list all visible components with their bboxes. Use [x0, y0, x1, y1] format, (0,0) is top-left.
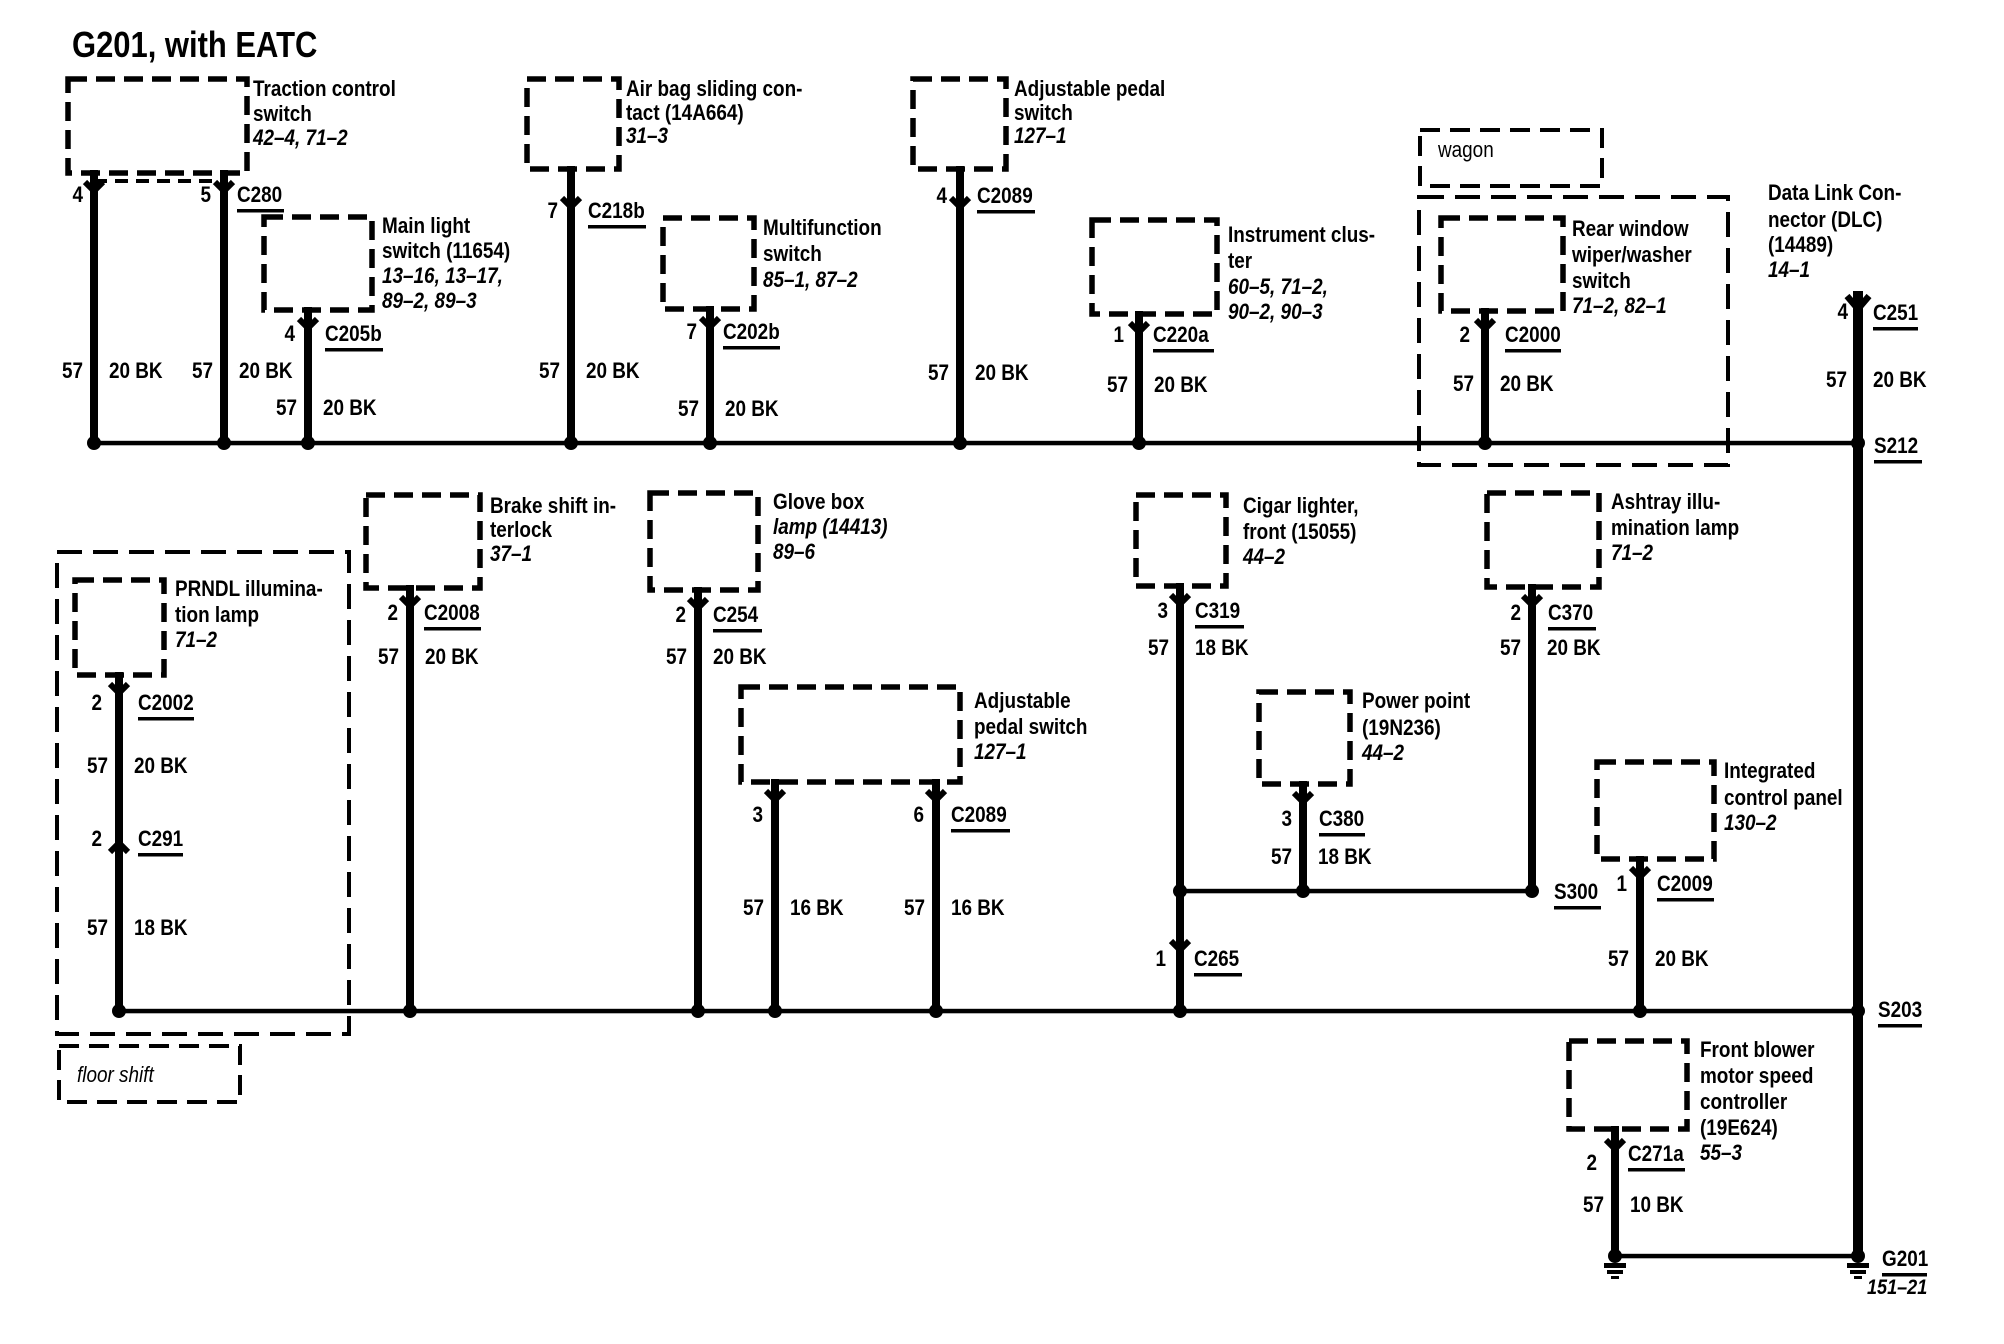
svg-text:14–1: 14–1: [1768, 258, 1810, 283]
pin 1 / connector C265: [1155, 947, 1242, 977]
wire: Adjustable pedal switch pin 3 to S203: [766, 779, 784, 1011]
svg-text:(19N236): (19N236): [1362, 716, 1441, 741]
svg-text:89–6: 89–6: [773, 540, 816, 565]
wire label 57 / 18 BK (power point wire): [1271, 845, 1372, 870]
svg-text:20 BK: 20 BK: [109, 359, 163, 384]
svg-text:C370: C370: [1548, 601, 1593, 626]
svg-text:Integrated: Integrated: [1724, 759, 1815, 784]
svg-text:71–2, 82–1: 71–2, 82–1: [1572, 294, 1667, 319]
svg-text:C202b: C202b: [723, 320, 780, 345]
svg-text:Adjustable: Adjustable: [974, 689, 1071, 714]
wire label 57 / 20 BK (glove box wire): [666, 645, 767, 670]
wire label 57 / 20 BK (PRNDL upper): [87, 754, 188, 779]
svg-text:ter: ter: [1228, 249, 1252, 274]
wire label 57 / 20 BK (air bag wire): [539, 359, 640, 384]
svg-text:switch (11654): switch (11654): [382, 239, 510, 264]
wire: Traction control switch pin 4 to S212: [85, 170, 103, 443]
svg-text:PRNDL illumina-: PRNDL illumina-: [175, 577, 323, 602]
svg-text:3: 3: [1157, 599, 1168, 624]
component: Ashtray illumination lamp (box): [1487, 493, 1599, 587]
wire label 57 / 20 BK (traction pin 4 wire): [62, 359, 163, 384]
svg-text:4: 4: [72, 183, 83, 208]
wire: Glove box lamp pin 2 (C254) to S203: [689, 587, 707, 1011]
svg-text:57: 57: [62, 359, 83, 384]
pin 7 / connector C202b: [686, 320, 780, 350]
svg-text:C265: C265: [1194, 947, 1239, 972]
svg-text:3: 3: [1281, 807, 1292, 832]
enclosure: floor shift option around PRNDL illumination lamp: [57, 552, 349, 1034]
svg-text:44–2: 44–2: [1361, 741, 1405, 766]
svg-text:Air bag sliding con-: Air bag sliding con-: [626, 77, 802, 102]
svg-text:13–16, 13–17,: 13–16, 13–17,: [382, 264, 503, 289]
svg-text:2: 2: [675, 603, 686, 628]
pin 3 / connector C380: [1281, 807, 1365, 837]
label: Adjustable pedal switch 127-1: [1014, 77, 1165, 149]
svg-text:C2089: C2089: [977, 184, 1033, 209]
svg-text:57: 57: [666, 645, 687, 670]
svg-text:controller: controller: [1700, 1090, 1787, 1115]
svg-text:Front blower: Front blower: [1700, 1038, 1814, 1063]
svg-text:switch: switch: [1014, 101, 1073, 126]
component: Rear window wiper/washer switch (box): [1441, 218, 1563, 311]
svg-text:2: 2: [91, 827, 102, 852]
label: Integrated control panel 130-2: [1724, 759, 1843, 836]
pin 1 / connector C2009: [1616, 872, 1714, 902]
svg-text:57: 57: [539, 359, 560, 384]
svg-text:20 BK: 20 BK: [713, 645, 767, 670]
svg-text:37–1: 37–1: [490, 542, 532, 567]
bus: splice S203 horizontal wire: [119, 1009, 1858, 1014]
svg-text:20 BK: 20 BK: [586, 359, 640, 384]
component: Instrument cluster (box): [1092, 220, 1217, 314]
svg-text:10 BK: 10 BK: [1630, 1193, 1684, 1218]
svg-text:18 BK: 18 BK: [134, 916, 188, 941]
svg-text:20 BK: 20 BK: [425, 645, 479, 670]
wire: Power point pin 3 (C380) to S300: [1294, 781, 1312, 891]
bus: splice S212 horizontal wire: [94, 441, 1858, 446]
wire label 57 / 16 BK (adj pedal pin3 wire): [743, 896, 844, 921]
component: Cigar lighter, front (15055) (box): [1136, 495, 1226, 586]
svg-text:S212: S212: [1874, 434, 1918, 459]
svg-text:Traction control: Traction control: [253, 77, 396, 102]
component: Power point (19N236) (box): [1259, 692, 1350, 784]
svg-text:tact (14A664): tact (14A664): [626, 101, 744, 126]
svg-text:Main light: Main light: [382, 214, 470, 239]
svg-text:Adjustable pedal: Adjustable pedal: [1014, 77, 1165, 102]
svg-text:wiper/washer: wiper/washer: [1571, 243, 1692, 268]
svg-text:control panel: control panel: [1724, 786, 1843, 811]
wire label 57 / 20 BK (multifunction wire): [678, 397, 779, 422]
svg-text:C291: C291: [138, 827, 183, 852]
connector C265 down-arrow on cigar lighter wire: [1171, 941, 1189, 950]
svg-text:57: 57: [1271, 845, 1292, 870]
svg-text:20 BK: 20 BK: [725, 397, 779, 422]
svg-text:57: 57: [1608, 947, 1629, 972]
svg-text:Glove box: Glove box: [773, 490, 865, 515]
label: PRNDL illumination lamp 71-2: [175, 577, 323, 653]
pin 3 of Adjustable pedal switch (lower): [752, 803, 763, 828]
label: Main light switch (11654): [382, 214, 510, 314]
pin 2 / connector C2000: [1459, 323, 1561, 353]
wire: Adjustable pedal switch pin 4 (C2089) to S212: [951, 166, 969, 443]
svg-text:60–5, 71–2,: 60–5, 71–2,: [1228, 275, 1328, 300]
wire: PRNDL illumination lamp pin 2 (C2002/C291) to S203: [110, 672, 128, 1011]
wire: Instrument cluster pin 1 (C220a) to S212: [1130, 311, 1148, 443]
svg-text:mination lamp: mination lamp: [1611, 516, 1739, 541]
svg-text:Ashtray illu-: Ashtray illu-: [1611, 490, 1720, 515]
svg-text:20 BK: 20 BK: [1500, 372, 1554, 397]
svg-text:57: 57: [192, 359, 213, 384]
svg-text:floor shift: floor shift: [77, 1063, 155, 1088]
svg-text:pedal switch: pedal switch: [974, 715, 1087, 740]
svg-text:C319: C319: [1195, 599, 1240, 624]
svg-text:(14489): (14489): [1768, 233, 1833, 258]
pin 4 / connector C2089: [936, 184, 1035, 214]
wire: Multifunction switch pin 7 (C202b) to S212: [701, 306, 719, 443]
label: Glove box lamp (14413) 89-6: [773, 490, 888, 565]
svg-text:57: 57: [378, 645, 399, 670]
component: Brake shift interlock (box): [366, 495, 480, 588]
wire: Front blower motor speed controller pin 2 (C271a) to G201: [1606, 1126, 1624, 1256]
wire label 57 / 20 BK (integrated control panel wire): [1608, 947, 1709, 972]
label: Cigar lighter, front (15055) 44-2: [1242, 494, 1358, 570]
svg-text:tion lamp: tion lamp: [175, 603, 259, 628]
svg-text:57: 57: [87, 754, 108, 779]
pin 6 / connector C2089 (lower): [913, 803, 1010, 833]
wire label 57 / 10 BK (front blower wire): [1583, 1193, 1684, 1218]
svg-text:85–1, 87–2: 85–1, 87–2: [763, 268, 858, 293]
svg-text:20 BK: 20 BK: [975, 361, 1029, 386]
wire: Adjustable pedal switch pin 6 (C2089) to S203: [927, 779, 945, 1011]
svg-text:C380: C380: [1319, 807, 1364, 832]
pin 7 / connector C218b: [547, 199, 646, 229]
svg-text:20 BK: 20 BK: [1547, 636, 1601, 661]
svg-text:127–1: 127–1: [1014, 124, 1067, 149]
svg-text:151–21: 151–21: [1867, 1276, 1927, 1300]
svg-text:Cigar lighter,: Cigar lighter,: [1243, 494, 1359, 519]
ground symbol G201 at DLC wire: [1847, 1249, 1869, 1279]
svg-text:16 BK: 16 BK: [790, 896, 844, 921]
svg-text:1: 1: [1616, 872, 1627, 897]
wire: Integrated control panel pin 1 (C2009) to S203: [1631, 856, 1649, 1011]
svg-text:55–3: 55–3: [1700, 1141, 1743, 1166]
svg-text:90–2, 90–3: 90–2, 90–3: [1228, 300, 1323, 325]
svg-text:6: 6: [913, 803, 924, 828]
svg-text:3: 3: [752, 803, 763, 828]
svg-text:S300: S300: [1554, 880, 1598, 905]
wire label 57 / 20 BK (main light wire): [276, 396, 377, 421]
svg-text:20 BK: 20 BK: [1873, 368, 1927, 393]
connector C291 up-arrow on PRNDL wire: [110, 843, 128, 852]
svg-text:20 BK: 20 BK: [134, 754, 188, 779]
svg-text:20 BK: 20 BK: [1655, 947, 1709, 972]
label: Instrument cluster 60-5, 71-2, 90-2, 90-3: [1228, 223, 1375, 325]
wire: Ashtray illumination lamp pin 2 (C370) to S300: [1523, 584, 1541, 891]
svg-text:G201: G201: [1882, 1247, 1928, 1272]
svg-text:57: 57: [1826, 368, 1847, 393]
svg-text:C2009: C2009: [1657, 872, 1713, 897]
svg-text:2: 2: [91, 691, 102, 716]
svg-text:57: 57: [276, 396, 297, 421]
svg-text:S203: S203: [1878, 998, 1922, 1023]
svg-text:motor speed: motor speed: [1700, 1064, 1813, 1089]
svg-text:130–2: 130–2: [1724, 811, 1777, 836]
svg-text:C2002: C2002: [138, 691, 194, 716]
svg-text:31–3: 31–3: [626, 124, 669, 149]
label: Data Link Connector (DLC) (14489) 14-1: [1768, 181, 1901, 283]
svg-text:C220a: C220a: [1153, 323, 1209, 348]
svg-text:89–2, 89–3: 89–2, 89–3: [382, 289, 477, 314]
bus: splice S300 horizontal wire: [1180, 889, 1532, 894]
wire label 57 / 20 BK (brake shift wire): [378, 645, 479, 670]
svg-text:57: 57: [1107, 373, 1128, 398]
svg-text:57: 57: [904, 896, 925, 921]
svg-text:2: 2: [1459, 323, 1470, 348]
component: Air bag sliding contact (14A664) (box): [527, 79, 619, 169]
pin 2 / connector C254: [675, 603, 762, 633]
option box: floor shift: [59, 1046, 240, 1102]
pin 3 / connector C319: [1157, 599, 1244, 629]
enclosure: wagon option around Rear window wiper/washer switch: [1419, 197, 1728, 465]
pin 5 / connector C280: [200, 183, 284, 213]
svg-text:4: 4: [284, 322, 295, 347]
svg-text:18 BK: 18 BK: [1318, 845, 1372, 870]
component: Traction control switch (box): [68, 79, 247, 173]
wire: Rear window wiper/washer switch pin 2 (C2000) to S212: [1476, 308, 1494, 443]
arrow at top of Data Link Connector wire (C251): [1847, 296, 1869, 309]
svg-text:nector (DLC): nector (DLC): [1768, 208, 1882, 233]
ground label G201 / 151-21: [1867, 1247, 1928, 1300]
svg-text:57: 57: [1500, 636, 1521, 661]
option box: wagon: [1420, 130, 1602, 186]
svg-text:18 BK: 18 BK: [1195, 636, 1249, 661]
wire: Cigar lighter pin 3 (C319) through C265 to S203: [1171, 583, 1189, 1011]
svg-text:57: 57: [678, 397, 699, 422]
splice label S212: [1874, 434, 1922, 464]
component: Main light switch (11654) (box): [264, 217, 372, 310]
component: PRNDL illumination lamp (box): [75, 580, 164, 675]
label: Adjustable pedal switch 127-1 (lower): [974, 689, 1087, 765]
svg-text:71–2: 71–2: [175, 628, 218, 653]
svg-text:20 BK: 20 BK: [1154, 373, 1208, 398]
svg-text:2: 2: [1586, 1151, 1597, 1176]
label: Air bag sliding contact (14A664): [626, 77, 802, 149]
pin 2 / connector C370: [1510, 601, 1596, 631]
wire label 57 / 20 BK (rear window wire): [1453, 372, 1554, 397]
pin 1 / connector C220a: [1113, 323, 1214, 353]
wire: G201 ground link: [1615, 1254, 1858, 1259]
svg-text:C2008: C2008: [424, 601, 480, 626]
svg-text:71–2: 71–2: [1611, 541, 1654, 566]
label: Multifunction switch 85-1, 87-2: [763, 216, 882, 293]
svg-text:4: 4: [1837, 300, 1848, 325]
wire label 57 / 16 BK (adj pedal pin6 wire): [904, 896, 1005, 921]
svg-text:7: 7: [547, 199, 558, 224]
svg-text:wagon: wagon: [1437, 138, 1494, 163]
svg-text:2: 2: [1510, 601, 1521, 626]
connector bracket under Traction control switch (C280): [94, 179, 224, 183]
component: Multifunction switch (box): [663, 218, 754, 309]
label: Brake shift interlock 37-1: [490, 494, 616, 567]
component: Glove box lamp (14413) (box): [650, 493, 758, 590]
splice label S203: [1878, 998, 1922, 1028]
wire label 57 / 18 BK (PRNDL lower): [87, 916, 188, 941]
splice label S300: [1554, 880, 1601, 910]
svg-text:57: 57: [1453, 372, 1474, 397]
ground symbol at front blower wire (G201): [1604, 1249, 1626, 1279]
svg-text:C271a: C271a: [1628, 1142, 1684, 1167]
junctions on S300: [1173, 884, 1539, 898]
pin 2 / connector C2008: [387, 601, 481, 631]
wire: Air bag sliding contact pin 7 (C218b) to S212: [562, 166, 580, 443]
svg-text:57: 57: [928, 361, 949, 386]
svg-text:2: 2: [387, 601, 398, 626]
svg-text:Data Link Con-: Data Link Con-: [1768, 181, 1901, 206]
svg-text:127–1: 127–1: [974, 740, 1027, 765]
svg-text:C218b: C218b: [588, 199, 645, 224]
svg-text:20 BK: 20 BK: [323, 396, 377, 421]
svg-text:Power point: Power point: [1362, 689, 1470, 714]
svg-text:Instrument clus-: Instrument clus-: [1228, 223, 1375, 248]
junctions on S212: [87, 436, 1865, 450]
label: Front blower motor speed controller (19E624) 55-3: [1700, 1038, 1814, 1166]
svg-text:5: 5: [200, 183, 211, 208]
svg-text:20 BK: 20 BK: [239, 359, 293, 384]
component: Adjustable pedal switch (top) (box): [913, 79, 1006, 169]
svg-text:1: 1: [1155, 947, 1166, 972]
wire label 57 / 20 BK (instrument cluster wire): [1107, 373, 1208, 398]
svg-text:terlock: terlock: [490, 518, 553, 543]
wire: Main light switch pin 4 (C205b) to S212: [299, 307, 317, 443]
svg-text:57: 57: [87, 916, 108, 941]
svg-text:1: 1: [1113, 323, 1124, 348]
wire label 57 / 20 BK (ashtray wire): [1500, 636, 1601, 661]
svg-text:7: 7: [686, 320, 697, 345]
pin 2 / connector C2002: [91, 691, 194, 721]
label: Traction control switch 42-4, 71-2: [252, 77, 396, 151]
pin 4 / connector C251: [1837, 300, 1918, 331]
wire label 57 / 20 BK (adj pedal top wire): [928, 361, 1029, 386]
svg-text:57: 57: [1583, 1193, 1604, 1218]
svg-text:Multifunction: Multifunction: [763, 216, 882, 241]
svg-text:Rear window: Rear window: [1572, 217, 1689, 242]
svg-text:Brake shift in-: Brake shift in-: [490, 494, 616, 519]
wire: Brake shift interlock pin 2 (C2008) to S203: [401, 585, 419, 1011]
svg-text:(19E624): (19E624): [1700, 1116, 1778, 1141]
svg-text:G201, with EATC: G201, with EATC: [72, 26, 317, 66]
label: Power point (19N236) 44-2: [1361, 689, 1470, 766]
svg-text:switch: switch: [1572, 269, 1631, 294]
svg-text:C251: C251: [1873, 301, 1918, 326]
pin 4 / connector C205b: [284, 322, 383, 352]
svg-text:C2000: C2000: [1505, 323, 1561, 348]
wire: Traction control switch pin 5 (C280) to S212: [215, 170, 233, 443]
svg-text:front (15055): front (15055): [1243, 520, 1356, 545]
svg-text:C2089: C2089: [951, 803, 1007, 828]
svg-text:C205b: C205b: [325, 322, 382, 347]
junctions on S203: [112, 1004, 1865, 1018]
wire label 57 / 18 BK (cigar lighter wire): [1148, 636, 1249, 661]
svg-text:42–4, 71–2: 42–4, 71–2: [252, 126, 348, 151]
svg-text:C280: C280: [237, 183, 282, 208]
pin 2 / connector C271a: [1586, 1142, 1685, 1176]
title: G201, with EATC: [72, 26, 317, 66]
wire: Data Link Connector pin 4 (C251) to S212/S203/G201: [1853, 291, 1863, 1256]
svg-text:C254: C254: [713, 603, 759, 628]
wire label 57 / 20 BK (DLC wire): [1826, 368, 1927, 393]
component: Integrated control panel (box): [1597, 762, 1714, 859]
component: Front blower motor speed controller (19E624) (box): [1569, 1041, 1687, 1129]
svg-text:lamp (14413): lamp (14413): [773, 515, 888, 540]
wire label 57 / 20 BK (traction pin 5 wire): [192, 359, 293, 384]
label: Ashtray illumination lamp 71-2: [1611, 490, 1739, 566]
svg-text:57: 57: [743, 896, 764, 921]
pin 2 / connector C291: [91, 827, 183, 857]
pin 4 of Traction control switch: [72, 183, 83, 208]
component: Adjustable pedal switch (lower) (box): [741, 687, 960, 782]
svg-text:57: 57: [1148, 636, 1169, 661]
svg-text:4: 4: [936, 184, 947, 209]
svg-text:16 BK: 16 BK: [951, 896, 1005, 921]
svg-text:44–2: 44–2: [1242, 545, 1286, 570]
svg-text:switch: switch: [253, 102, 312, 127]
label: Rear window wiper/washer switch 71-2, 82-1: [1571, 217, 1692, 319]
svg-text:switch: switch: [763, 242, 822, 267]
